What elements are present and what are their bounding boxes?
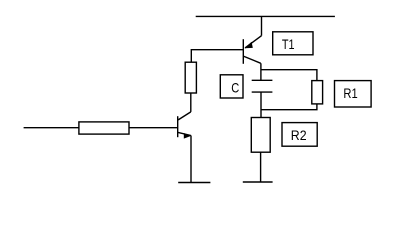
label box R2 (282, 123, 317, 147)
transistor Q2 base bar (177, 116, 179, 137)
label box R1 (335, 81, 372, 107)
ground (under Q2) (178, 182, 210, 184)
wire: top supply rail (196, 15, 335, 17)
ground (under R2) (243, 181, 273, 183)
resistor R2 (vertical box) (251, 118, 270, 153)
label box C (220, 75, 243, 98)
transistor T1 collector lead (243, 56, 260, 63)
wire: collector node to R1 top (261, 70, 317, 81)
wire: T1 emitter vertical to rail (261, 16, 263, 35)
capacitor C bottom plate (252, 91, 273, 93)
wire: R1 bottom to cap/R2 node (261, 104, 317, 110)
transistor T1 base bar (242, 39, 244, 64)
wire: bias resistor bottom to Q2 collector (190, 93, 192, 112)
svg-text:C: C (231, 79, 239, 95)
transistor Q2 collector lead (178, 112, 191, 120)
wire: capacitor bottom lead down to R2 (260, 92, 262, 117)
wire: base node down to bias resistor (190, 49, 192, 62)
resistor (input series, unlabeled) (79, 122, 129, 134)
capacitor C top plate (252, 79, 273, 81)
label box T1 (273, 32, 313, 55)
resistor R1 (vertical box) (312, 81, 323, 104)
wire: Q2 emitter vertical down (190, 136, 192, 183)
wire: input wire through series resistor to Q2 base (24, 127, 178, 129)
transistor Q2 emitter lead with NPN arrow (178, 132, 191, 138)
wire: R2 bottom to ground (260, 152, 262, 182)
resistor (bias, unlabeled) (185, 62, 196, 93)
svg-text:R2: R2 (291, 127, 307, 143)
wire: T1 collector vertical / capacitor top lead (260, 63, 262, 80)
wire: T1 base wire (191, 49, 243, 51)
transistor T1 emitter lead with PNP arrow (245, 36, 262, 49)
svg-text:T1: T1 (282, 36, 295, 52)
svg-text:R1: R1 (343, 85, 357, 101)
